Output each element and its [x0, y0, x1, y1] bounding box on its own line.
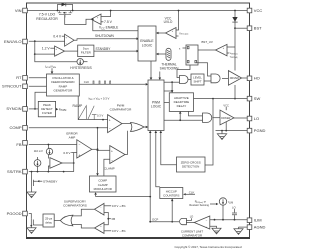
- svg-text:VVCC(on): VVCC(on): [179, 32, 188, 35]
- svg-text:LO: LO: [190, 215, 194, 219]
- svg-text:FB: FB: [16, 142, 21, 147]
- svg-text:delay: delay: [45, 221, 52, 225]
- svg-text:HO: HO: [254, 76, 260, 81]
- svg-text:Copyright © 2017, Texas Instru: Copyright © 2017, Texas Instruments Inco…: [174, 245, 241, 249]
- svg-text:0.8 V: 0.8 V: [63, 151, 71, 155]
- svg-text:FILTER: FILTER: [81, 51, 92, 55]
- svg-text:GENERATOR: GENERATOR: [54, 89, 74, 93]
- svg-text:COMPARATORS: COMPARATORS: [63, 204, 87, 208]
- svg-text:0.8 V + 8%: 0.8 V + 8%: [112, 204, 126, 208]
- svg-text:0.4 V: 0.4 V: [53, 34, 62, 38]
- svg-text:EN/UVLO: EN/UVLO: [4, 39, 22, 44]
- svg-text:FILTER: FILTER: [42, 111, 52, 115]
- svg-text:+: +: [109, 118, 111, 122]
- svg-text:CLK: CLK: [84, 80, 89, 84]
- svg-text:VIN: VIN: [15, 8, 22, 13]
- svg-text:Resistor Sensing: Resistor Sensing: [189, 203, 209, 207]
- svg-text:REGULATOR: REGULATOR: [36, 17, 58, 21]
- svg-text:VBST(off): VBST(off): [230, 56, 238, 58]
- svg-text:SHUTDOWN: SHUTDOWN: [95, 34, 114, 38]
- svg-text:VCC ENABLE: VCC ENABLE: [99, 26, 118, 31]
- svg-text:110 mV: 110 mV: [34, 149, 43, 153]
- svg-text:PWM: PWM: [152, 100, 160, 104]
- svg-text:DRIVER: DRIVER: [221, 117, 230, 120]
- svg-text:AMP: AMP: [69, 135, 76, 139]
- svg-text:BST: BST: [254, 26, 262, 31]
- svg-text:LOGIC: LOGIC: [151, 105, 162, 109]
- svg-text:LO: LO: [254, 116, 259, 121]
- svg-text:SW: SW: [254, 96, 261, 101]
- svg-text:RT: RT: [16, 75, 22, 80]
- svg-text:FB: FB: [112, 217, 116, 221]
- svg-text:SS/TRK: SS/TRK: [7, 169, 22, 174]
- svg-text:LOGIC: LOGIC: [142, 44, 153, 48]
- svg-text:1.2 V: 1.2 V: [42, 47, 51, 51]
- svg-text:−: −: [111, 159, 113, 163]
- svg-text:DRIVER: DRIVER: [230, 77, 239, 80]
- svg-text:STANDBY: STANDBY: [43, 179, 57, 183]
- svg-text:ENABLE: ENABLE: [140, 39, 154, 43]
- svg-text:COUNTERS: COUNTERS: [163, 194, 179, 198]
- svg-text:SHUTDOWN: SHUTDOWN: [160, 66, 179, 70]
- svg-text:ILIM: ILIM: [228, 200, 233, 205]
- svg-text:VBST(on): VBST(on): [230, 53, 238, 55]
- svg-text:SHIFT: SHIFT: [193, 80, 201, 84]
- svg-text:kFF x VIN + 0.3 V: kFF x VIN + 0.3 V: [89, 96, 110, 101]
- svg-text:COMP: COMP: [10, 125, 22, 130]
- svg-text:−: −: [79, 143, 81, 147]
- svg-text:PGOOD: PGOOD: [7, 211, 22, 216]
- svg-text:MODULATOR: MODULATOR: [94, 187, 112, 191]
- svg-text:0.8 V − 8%: 0.8 V − 8%: [112, 229, 126, 233]
- svg-text:RAMP: RAMP: [73, 104, 84, 108]
- svg-text:+: +: [111, 149, 113, 153]
- svg-text:CLAMP: CLAMP: [104, 167, 115, 171]
- svg-text:DETECTION: DETECTION: [182, 165, 199, 169]
- svg-text:VCC: VCC: [254, 8, 263, 13]
- svg-text:−: −: [109, 127, 111, 131]
- svg-text:HYSTERESIS: HYSTERESIS: [70, 66, 92, 70]
- svg-text:COMPARATOR: COMPARATOR: [182, 233, 202, 237]
- svg-text:STANDBY: STANDBY: [96, 47, 112, 51]
- svg-text:OCP: OCP: [152, 217, 158, 221]
- svg-text:DELAY: DELAY: [177, 104, 187, 108]
- svg-text:PGND: PGND: [254, 128, 266, 133]
- svg-text:7.5 V: 7.5 V: [104, 20, 113, 24]
- svg-text:VCC: VCC: [223, 103, 229, 107]
- svg-text:0.3 V: 0.3 V: [97, 114, 103, 118]
- svg-text:CLK: CLK: [189, 190, 195, 194]
- svg-text:SYNCIN: SYNCIN: [6, 106, 21, 111]
- svg-text:ILIM: ILIM: [254, 218, 262, 223]
- svg-text:+: +: [78, 153, 80, 157]
- svg-text:AGND: AGND: [254, 225, 266, 230]
- svg-text:BST_UV: BST_UV: [202, 40, 213, 44]
- svg-text:UVLO: UVLO: [164, 20, 173, 24]
- svg-text:SYNCOUT: SYNCOUT: [2, 84, 22, 89]
- svg-text:COMPARATOR: COMPARATOR: [110, 107, 132, 111]
